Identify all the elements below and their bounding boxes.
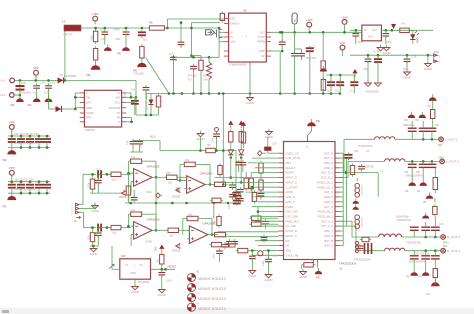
svg-text:10u: 10u: [335, 89, 340, 92]
wire: [125, 34, 127, 44]
ground PE: [91, 62, 101, 70]
wire: [155, 177, 157, 203]
wire: [90, 245, 98, 247]
svg-text:AGND: AGND: [382, 51, 390, 55]
svg-text:100k: 100k: [88, 182, 90, 188]
resistor R19: [90, 233, 94, 242]
test pad TP2: [215, 128, 219, 132]
svg-text:GND_8: GND_8: [324, 234, 333, 238]
wire: [125, 202, 236, 204]
resistor R34: [252, 216, 262, 220]
wire: [405, 250, 441, 252]
svg-text:744272102: 744272102: [362, 184, 364, 196]
svg-text:4u7: 4u7: [169, 53, 174, 56]
diode D6: [228, 150, 233, 155]
junction: [46, 135, 49, 138]
wire: [90, 192, 121, 194]
svg-text:GVDD_AB: GVDD_AB: [286, 253, 299, 257]
wire: [434, 260, 436, 267]
svg-text:100n: 100n: [213, 253, 216, 259]
resistor R5: [199, 60, 203, 70]
svg-text:MOUNT-HOLE3.0: MOUNT-HOLE3.0: [198, 287, 226, 291]
wire: [219, 253, 221, 262]
U1 bottom pins: [314, 260, 318, 263]
wire: [434, 251, 436, 256]
connector X3 12V: [434, 54, 438, 62]
svg-text:PE: PE: [11, 103, 15, 107]
junction: [192, 56, 195, 59]
wire: [216, 132, 218, 135]
ground AGND: [197, 131, 204, 137]
diode D7: [239, 150, 244, 155]
wire: [179, 176, 186, 178]
wire: [133, 190, 135, 198]
ground PE: [408, 112, 415, 118]
junction: [230, 176, 233, 179]
wire: [65, 80, 136, 82]
junction: [208, 92, 211, 95]
net VCC2: [176, 188, 181, 193]
svg-text:2Pk+: 2Pk+: [443, 240, 449, 244]
wire: [218, 181, 278, 183]
wire: [208, 79, 210, 93]
wire: [281, 32, 283, 42]
svg-text:680N 1000EPh: 680N 1000EPh: [409, 261, 426, 264]
junction: [355, 29, 358, 32]
svg-text:2Pk-: 2Pk-: [438, 143, 443, 147]
resistor R29: [239, 132, 243, 143]
svg-text:GND_7: GND_7: [324, 229, 333, 233]
svg-text:GND_3: GND_3: [286, 200, 295, 204]
ground AGND: [404, 69, 411, 75]
wire: [200, 56, 202, 61]
wire: [20, 190, 22, 193]
svg-text:IN: IN: [364, 28, 367, 32]
wire: [155, 203, 157, 230]
svg-text:OUT_B: OUT_B: [324, 205, 333, 209]
ground PE: [353, 198, 359, 203]
wire: [193, 69, 195, 94]
wire: [131, 181, 134, 183]
wire: [126, 102, 135, 104]
junction: [190, 27, 193, 30]
capacitor C31: [95, 233, 102, 235]
U8 pins right: [266, 32, 271, 56]
capacitor C50: [26, 139, 34, 142]
junction: [339, 74, 342, 77]
wire: [422, 131, 424, 139]
svg-text:INPUT_A: INPUT_A: [286, 234, 298, 238]
net VCC2: [122, 191, 127, 196]
wire: [412, 30, 414, 34]
wire: [385, 30, 387, 33]
supply 3V3 arrow B: [239, 121, 244, 129]
ground PE: [137, 59, 146, 67]
svg-text:OUTS: OUTS: [258, 35, 265, 39]
wire: [130, 182, 132, 194]
junction: [185, 202, 188, 205]
wire: [243, 145, 245, 148]
mount hole MOUNT-HOLE3.0: [187, 273, 195, 281]
svg-text:PE: PE: [405, 190, 409, 193]
connector L_OUT-1: [439, 137, 444, 142]
junction: [424, 249, 427, 252]
wire: [411, 161, 413, 164]
junction: [104, 27, 107, 30]
junction: [179, 179, 182, 182]
wire: [251, 251, 253, 257]
wire: [128, 172, 131, 174]
svg-text:2Pk+: 2Pk+: [438, 155, 444, 159]
wire: [340, 177, 348, 179]
junction: [222, 92, 225, 95]
resistor R39: [238, 248, 248, 252]
wire: [309, 54, 311, 94]
svg-text:7447709: 7447709: [63, 34, 73, 37]
wire: [126, 116, 131, 118]
wire: [294, 56, 296, 94]
wire: [173, 56, 219, 58]
wire: [127, 214, 129, 226]
junction: [377, 54, 380, 57]
wire: [179, 243, 181, 246]
svg-text:+15V: +15V: [341, 15, 348, 19]
ground AGND: [247, 95, 254, 101]
U1 pin stubs right: [335, 153, 340, 245]
svg-text:VCC/2: VCC/2: [172, 195, 180, 199]
junction: [411, 160, 414, 163]
wire: [425, 251, 427, 256]
svg-text:PE: PE: [3, 205, 7, 209]
capacitor C27: [95, 180, 102, 182]
snubber network: [365, 243, 372, 254]
ground PE: [431, 279, 440, 286]
wire: [243, 130, 245, 133]
net VCC2: [176, 244, 181, 249]
svg-text:2Pk-: 2Pk-: [443, 244, 448, 248]
wire: [411, 121, 413, 128]
wire: [182, 219, 184, 235]
wire: [267, 137, 269, 147]
wire: [75, 107, 79, 109]
junction: [92, 245, 95, 248]
junction: [213, 202, 216, 205]
resistor R26: [187, 216, 198, 220]
wire: [342, 153, 344, 246]
wire: [151, 268, 176, 270]
junction: [431, 160, 434, 163]
junction: [200, 92, 203, 95]
junction: [240, 156, 243, 159]
svg-text:IC5A: IC5A: [146, 239, 152, 243]
wire: [92, 244, 94, 246]
wire: [11, 129, 13, 136]
wire: [342, 53, 344, 56]
wire: [192, 55, 202, 57]
wire: [8, 192, 50, 194]
svg-text:OUT: OUT: [372, 28, 378, 32]
resistor R40: [350, 166, 354, 175]
junction: [211, 233, 214, 236]
wire: [11, 175, 13, 182]
junction: [322, 92, 325, 95]
wire: [222, 94, 224, 185]
wire: [294, 32, 296, 53]
wire: [249, 94, 251, 98]
capacitor C42: [131, 101, 139, 104]
wire: [75, 92, 79, 94]
wire: [177, 179, 187, 181]
ground PE: [408, 180, 415, 186]
resistor R27: [126, 186, 130, 195]
resistor R44: [433, 178, 437, 190]
junction: [322, 31, 325, 34]
wire: [330, 75, 332, 82]
capacitor C28: [131, 198, 138, 200]
resistor R45: [362, 237, 369, 241]
capacitor C65: [358, 167, 365, 169]
wire: [422, 161, 424, 164]
svg-text:AGND: AGND: [299, 275, 307, 279]
wire: [350, 54, 434, 56]
svg-text:ENA/LH: ENA/LH: [230, 22, 239, 26]
svg-text:C45: C45: [101, 37, 106, 41]
svg-text:VCC/2: VCC/2: [119, 196, 127, 199]
svg-text:AGND: AGND: [158, 293, 166, 297]
junction: [106, 173, 109, 176]
resistor R25: [168, 228, 179, 232]
supply 3V3 arrow A: [228, 121, 233, 129]
svg-text:R15: R15: [166, 172, 171, 175]
resistor R48: [212, 198, 221, 202]
svg-text:100n: 100n: [363, 68, 369, 71]
supply VCC arrow: [352, 69, 357, 77]
svg-text:AGND: AGND: [403, 76, 411, 80]
capacitor C72: [233, 193, 241, 196]
LED PWR: [410, 31, 419, 40]
wire: [434, 230, 436, 237]
wire: [126, 121, 131, 123]
wire: [8, 181, 50, 183]
capacitor C6: [279, 42, 286, 44]
svg-text:OPA1656: OPA1656: [147, 164, 160, 168]
svg-text:C15: C15: [126, 140, 129, 145]
capacitor C61: [240, 163, 247, 165]
junction: [251, 186, 254, 189]
wire: [434, 192, 436, 193]
svg-text:C28: C28: [128, 196, 131, 201]
svg-text:VCC/2: VCC/2: [172, 248, 180, 252]
supply VDD arrow: [241, 122, 246, 130]
capacitor C: [43, 185, 51, 188]
wire: [311, 126, 313, 131]
resistor R38: [304, 263, 314, 267]
wire: [191, 23, 193, 56]
wire: [238, 167, 240, 172]
svg-text:LM5018: LM5018: [85, 128, 95, 132]
wire: [101, 173, 111, 175]
diode D5: [149, 100, 154, 105]
svg-text:IN: IN: [74, 220, 77, 223]
wire: [97, 174, 99, 180]
svg-text:PE: PE: [316, 119, 320, 123]
junction: [385, 29, 388, 32]
wire: [343, 139, 345, 172]
junction: [19, 94, 22, 97]
svg-text:10n: 10n: [244, 250, 247, 255]
wire: [161, 275, 163, 287]
wire: [427, 55, 429, 61]
svg-text:OSC_IOM: OSC_IOM: [286, 215, 299, 219]
wire: [431, 131, 433, 139]
svg-text:D2: D2: [60, 73, 64, 77]
svg-text:5R6: 5R6: [89, 35, 93, 41]
svg-text:+12V: +12V: [306, 18, 313, 22]
junction: [168, 92, 171, 95]
svg-text:R: R: [436, 186, 439, 188]
wire: [92, 191, 94, 193]
IC U9 regulator: [362, 25, 382, 41]
ground AGND: [265, 272, 272, 278]
wire: [434, 217, 436, 228]
svg-text:470: 470: [401, 22, 406, 26]
wire: [82, 174, 84, 204]
capacitor C7: [178, 42, 185, 44]
wire: [200, 218, 212, 220]
svg-text:TPA3251DDV: TPA3251DDV: [339, 262, 356, 266]
ground PE: [45, 95, 53, 102]
junction: [422, 160, 425, 163]
svg-text:EP: EP: [261, 54, 265, 58]
wire: [412, 40, 414, 45]
svg-text:12V: 12V: [434, 50, 439, 54]
wire: [245, 172, 247, 176]
wire: [134, 279, 136, 284]
svg-text:PE: PE: [423, 201, 427, 204]
resistor R50: [215, 232, 226, 236]
junction: [267, 249, 270, 252]
svg-text:N-1: N-1: [1, 79, 6, 83]
wire: [218, 150, 237, 152]
diode D2: [55, 77, 66, 83]
svg-text:PWPB: PWPB: [257, 40, 265, 44]
capacitor C54: [35, 185, 43, 188]
capacitor C76: [237, 190, 244, 192]
resistor R30: [244, 178, 248, 189]
svg-text:OUT_C: OUT_C: [324, 190, 333, 194]
svg-text:C13: C13: [273, 255, 278, 258]
svg-text:IC8: IC8: [121, 254, 126, 258]
connector X1: [76, 203, 80, 213]
wire: [346, 172, 378, 174]
svg-text:INPUT_B: INPUT_B: [286, 229, 298, 233]
junction: [38, 192, 41, 195]
wire: [172, 60, 174, 94]
wire: [64, 108, 75, 110]
capacitor C48: [17, 139, 25, 142]
wire: [192, 22, 220, 24]
wire: [340, 220, 352, 222]
capacitor C70: [229, 185, 236, 187]
junction: [38, 180, 41, 183]
capacitor C51: [35, 139, 43, 142]
svg-text:C35: C35: [354, 150, 359, 153]
svg-text:C46: C46: [115, 37, 120, 41]
wire: [94, 203, 96, 209]
varistor RV1: [16, 86, 25, 90]
junction: [251, 249, 254, 252]
svg-text:680N 1000EPh: 680N 1000EPh: [406, 174, 423, 177]
junction: [19, 79, 22, 82]
wire: [260, 196, 262, 200]
resistor R14: [206, 148, 216, 152]
capacitor C49: [8, 139, 16, 142]
ground PE: [419, 112, 426, 118]
junction: [35, 79, 38, 82]
wire: [11, 190, 13, 193]
wire: [301, 49, 303, 54]
wire: [251, 259, 253, 268]
junction: [29, 146, 32, 149]
wire: [74, 93, 76, 109]
wire: [180, 163, 182, 165]
svg-text:PE: PE: [428, 105, 432, 108]
wire: [75, 96, 79, 98]
capacitor bank C34: [410, 227, 440, 230]
junction: [150, 114, 153, 117]
supply VPP: [9, 170, 14, 178]
wire: [377, 65, 379, 82]
junction: [281, 50, 284, 53]
svg-text:U1: U1: [339, 267, 343, 271]
wire: [79, 204, 83, 206]
wire: [180, 23, 182, 43]
wire: [200, 138, 202, 151]
ground AGND: [132, 284, 139, 290]
capacitor C55: [8, 185, 16, 188]
wire: [218, 231, 278, 233]
wire: [132, 146, 134, 152]
wire: [160, 150, 206, 152]
svg-text:VIN: VIN: [116, 95, 120, 99]
wire: [79, 211, 83, 213]
wire: [355, 36, 357, 44]
wire: [344, 28, 346, 33]
wire: [15, 79, 57, 81]
svg-text:PE: PE: [28, 103, 32, 107]
capacitor C66: [357, 246, 364, 248]
wire: [395, 138, 439, 140]
svg-text:VCC: VCC: [115, 101, 121, 105]
wire: [268, 262, 270, 273]
wire: [347, 161, 349, 177]
svg-text:M1: M1: [286, 239, 290, 243]
trimmer: [258, 251, 263, 256]
junction: [190, 54, 193, 57]
junction: [161, 268, 164, 271]
resistor R35: [252, 222, 262, 226]
capacitor C25: [158, 273, 165, 275]
junction: [129, 202, 132, 205]
supply +12V: [307, 22, 312, 30]
wire: [268, 251, 270, 259]
wire: [135, 81, 137, 116]
wire: [146, 93, 340, 95]
wire: [322, 32, 324, 58]
mount hole MOUNT-HOLE3.0: [187, 283, 195, 291]
wire: [340, 172, 344, 174]
ground AGND: [300, 269, 307, 275]
